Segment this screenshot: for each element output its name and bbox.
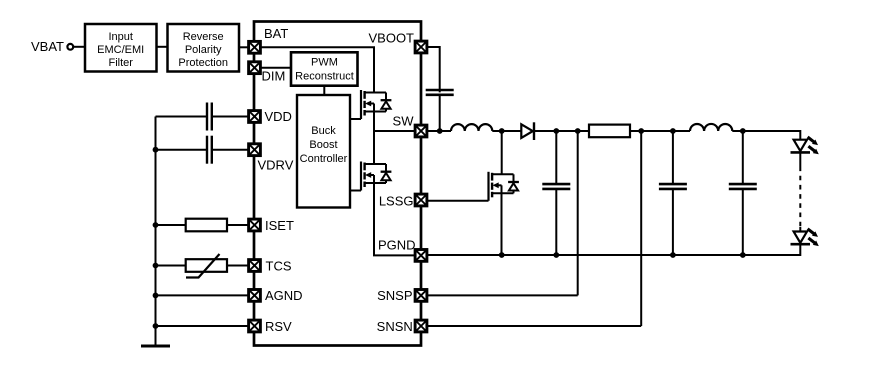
wire SW pin to L1 xyxy=(427,130,451,132)
wire gate M3 from LSSG xyxy=(427,200,489,202)
wire cap to VDD pin xyxy=(212,116,249,118)
wire PWM box to controller xyxy=(323,86,325,95)
pin AGND xyxy=(249,290,261,302)
svg-text:Input: Input xyxy=(108,31,132,43)
wire C1 to SW rail xyxy=(439,95,441,131)
IC U1 body xyxy=(254,22,421,346)
ground xyxy=(141,345,170,348)
pin PGND xyxy=(415,250,427,262)
wire VDD from bus to cap xyxy=(156,116,208,118)
wire SNSN vertical xyxy=(640,131,642,326)
wire SW rail internal xyxy=(374,130,415,132)
svg-text:Reverse: Reverse xyxy=(183,31,224,43)
capacitor C3 xyxy=(659,184,687,189)
svg-text:Controller: Controller xyxy=(300,153,348,165)
junction bus VDRV xyxy=(153,147,159,153)
junction L1/M3 drain xyxy=(499,128,505,134)
wire D1 to R2 xyxy=(534,130,589,132)
wire M3 drain xyxy=(501,131,503,174)
svg-text:PGND: PGND xyxy=(378,237,416,252)
pin VDRV xyxy=(249,144,261,156)
pin RSV xyxy=(249,320,261,332)
block Input EMC/EMI Filter xyxy=(85,24,157,72)
junction C4 top xyxy=(740,128,746,134)
wire filter to protection xyxy=(157,46,168,48)
svg-text:SNSN: SNSN xyxy=(377,319,413,334)
led D2 xyxy=(791,140,811,153)
led D3 arrows xyxy=(808,229,819,246)
pin VDD xyxy=(249,111,261,123)
wire cap to VDRV pin xyxy=(212,149,249,151)
capacitor C_VDD xyxy=(207,103,212,131)
svg-text:SW: SW xyxy=(393,114,415,129)
block PWM Reconstruct xyxy=(291,52,358,85)
wire bus to RSV pin xyxy=(156,325,249,327)
wire protection to BAT pin xyxy=(239,46,249,48)
wire C4 bottom lead xyxy=(742,189,744,255)
wire VDRV from bus to cap xyxy=(156,149,208,151)
junction C2 top xyxy=(553,128,559,134)
wire dashed LED string xyxy=(799,167,801,228)
svg-text:VDRV: VDRV xyxy=(258,158,294,173)
pin DIM xyxy=(249,62,261,74)
wire left bus xyxy=(155,117,157,347)
led D2 arrows xyxy=(808,137,819,154)
thermistor R_TCS xyxy=(186,254,227,278)
capacitor C4 xyxy=(729,184,757,189)
inductor L2 xyxy=(690,124,732,131)
wire SNSP pin to tap xyxy=(427,294,578,296)
svg-text:BAT: BAT xyxy=(264,26,288,41)
pin TCS xyxy=(249,260,261,272)
junction bus TCS xyxy=(153,263,159,269)
pin BAT xyxy=(249,41,261,53)
junction C1/SW xyxy=(437,128,443,134)
svg-text:Boost: Boost xyxy=(309,139,337,151)
wire dashes to D3 xyxy=(799,227,801,232)
junction bus ISET xyxy=(153,222,159,228)
wire gate M1 xyxy=(350,118,361,120)
wire VBOOT to cap C1 xyxy=(427,47,440,92)
terminal VBAT xyxy=(67,44,73,50)
transistor M1 (internal high-side) xyxy=(361,90,391,119)
capacitor C1 (bootstrap) xyxy=(426,90,454,95)
wire D3 to PGND rail xyxy=(427,244,800,255)
svg-text:Polarity: Polarity xyxy=(185,44,222,56)
wire M3 source to PGND rail xyxy=(501,193,503,255)
wire C3 top lead xyxy=(672,131,674,184)
wire bus to R_ISET xyxy=(156,224,186,226)
svg-text:Reconstruct: Reconstruct xyxy=(295,70,354,82)
wire SNSN pin to tap xyxy=(427,325,641,327)
svg-text:PWM: PWM xyxy=(311,56,338,68)
transistor M2 (internal low-side) xyxy=(361,162,391,191)
svg-text:Filter: Filter xyxy=(108,57,133,69)
junction bus RSV xyxy=(153,323,159,329)
junction C3 top xyxy=(670,128,676,134)
svg-text:VBAT: VBAT xyxy=(31,39,64,54)
svg-text:LSSG: LSSG xyxy=(379,194,414,209)
diode D1 xyxy=(521,122,534,140)
pin LSSG xyxy=(415,194,427,206)
wire C3 bottom lead xyxy=(672,189,674,255)
junction C4 bottom xyxy=(740,252,746,258)
pin ISET xyxy=(249,219,261,231)
svg-text:TCS: TCS xyxy=(266,258,292,273)
svg-text:RSV: RSV xyxy=(265,319,292,334)
junction M3 source/PGND xyxy=(499,252,505,258)
wire L1 to diode D1 xyxy=(492,130,521,132)
wire M1 source to SW rail xyxy=(373,112,375,132)
svg-text:VDD: VDD xyxy=(265,109,292,124)
svg-text:SNSP: SNSP xyxy=(377,288,412,303)
resistor R2 (sense) xyxy=(589,125,630,138)
svg-text:EMC/EMI: EMC/EMI xyxy=(97,44,144,56)
svg-text:AGND: AGND xyxy=(265,288,303,303)
wire BAT rail to M1 drain xyxy=(260,47,374,92)
wire C4 top lead xyxy=(742,131,744,184)
wire SNSP vertical xyxy=(577,131,579,295)
svg-text:VBOOT: VBOOT xyxy=(368,31,414,46)
wire gate M2 xyxy=(350,190,361,192)
junction C2 bottom xyxy=(553,252,559,258)
wire D2 to dashes xyxy=(799,152,801,166)
inductor L1 xyxy=(451,124,492,131)
junction SNSN tap xyxy=(638,128,644,134)
wire bus to thermistor xyxy=(156,265,186,267)
pin SNSN xyxy=(415,320,427,332)
svg-text:ISET: ISET xyxy=(265,218,294,233)
wire L2 to LED string xyxy=(732,131,800,140)
svg-text:Buck: Buck xyxy=(311,125,336,137)
junction SNSP tap xyxy=(575,128,581,134)
pin SNSP xyxy=(415,290,427,302)
block Reverse Polarity Protection xyxy=(168,24,240,72)
led D3 xyxy=(791,232,811,245)
wire bus to AGND pin xyxy=(156,294,249,296)
svg-text:Protection: Protection xyxy=(178,57,228,69)
wire thermistor to pin xyxy=(227,265,249,267)
wire VBAT to filter xyxy=(73,46,85,48)
pin SW xyxy=(415,125,427,137)
wire R2 to L2 xyxy=(630,130,690,132)
wire M2 source to PGND pin xyxy=(374,183,415,255)
pin VBOOT xyxy=(415,41,427,53)
wire M2 drain to SW rail xyxy=(373,131,375,164)
block Buck Boost Controller xyxy=(297,95,350,208)
wire R_ISET to pin xyxy=(227,224,249,226)
wire C2 top lead xyxy=(555,131,557,184)
capacitor C_VDRV xyxy=(207,136,212,164)
wire C2 bottom lead xyxy=(555,189,557,255)
capacitor C2 xyxy=(542,184,570,189)
transistor M3 (external) xyxy=(489,172,519,201)
junction C3 bottom xyxy=(670,252,676,258)
junction bus AGND xyxy=(153,293,159,299)
svg-text:DIM: DIM xyxy=(262,69,286,84)
resistor R_ISET xyxy=(186,219,227,232)
wire DIM to PWM box xyxy=(260,67,291,69)
